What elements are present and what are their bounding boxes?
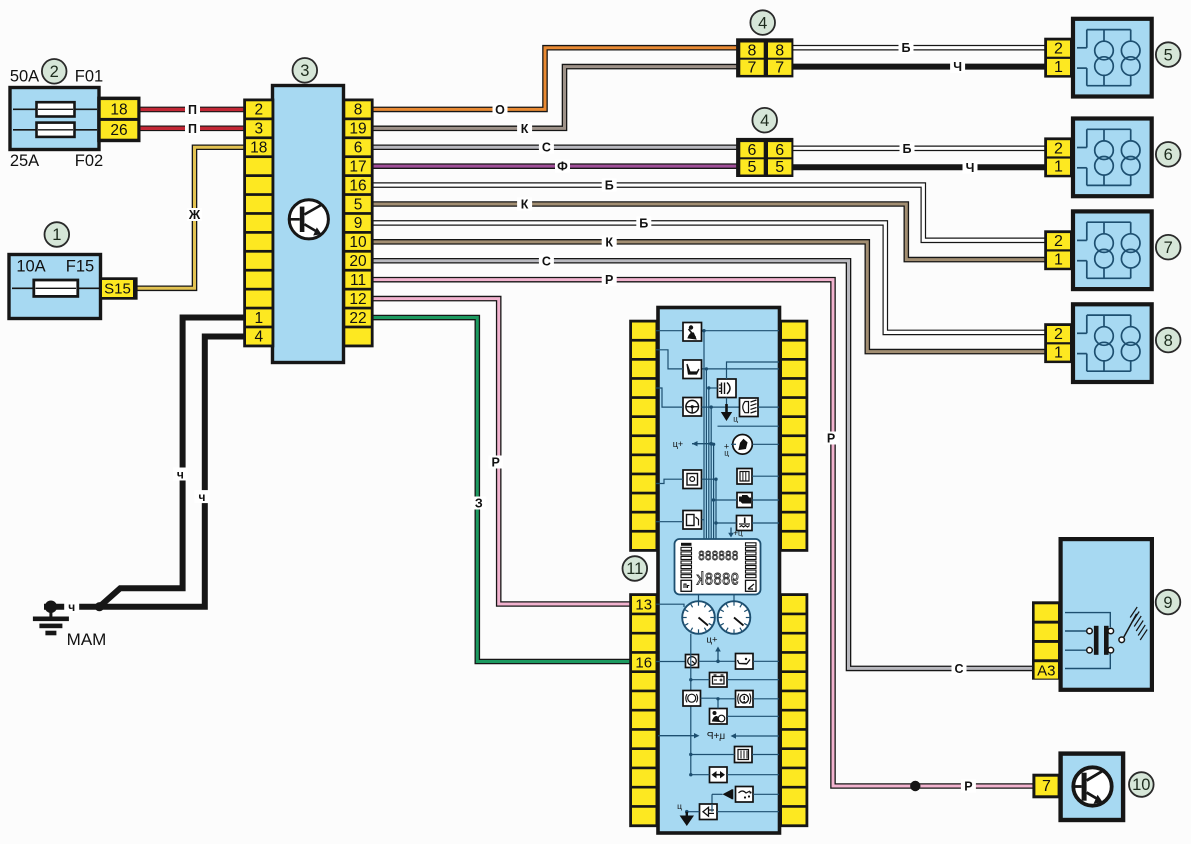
svg-text:ц: ц [733,415,738,424]
svg-text:С: С [954,662,963,676]
svg-text:ч: ч [68,600,75,614]
svg-text:9: 9 [1163,594,1172,612]
svg-text:Б: Б [605,179,614,193]
svg-text:ц: ц [677,801,682,811]
svg-text:888888: 888888 [698,548,738,565]
svg-text:4: 4 [760,112,769,130]
svg-text:10A: 10A [16,258,45,276]
svg-text:6: 6 [354,140,363,157]
svg-text:Р: Р [492,456,500,470]
svg-text:8: 8 [354,102,363,119]
svg-text:ц+: ц+ [673,439,683,449]
svg-text:6: 6 [775,142,784,159]
svg-text:З: З [475,497,483,511]
svg-text:7: 7 [1042,778,1051,795]
svg-text:17: 17 [349,158,366,175]
svg-text:18: 18 [250,140,267,157]
svg-text:2: 2 [1054,41,1063,58]
svg-text:О: О [495,103,505,117]
svg-text:4: 4 [758,14,767,32]
svg-text:7: 7 [748,60,757,77]
svg-text:К: К [521,198,529,212]
svg-text:1: 1 [52,226,61,244]
svg-text:25A: 25A [10,152,39,170]
svg-text:20: 20 [349,253,367,270]
svg-text:С: С [542,141,551,155]
svg-text:S15: S15 [104,280,131,297]
svg-text:1: 1 [1054,59,1063,76]
svg-text:1: 1 [1054,345,1063,362]
svg-text:МАМ: МАМ [67,630,107,649]
svg-text:26: 26 [110,122,127,139]
svg-text:A3: A3 [1037,663,1055,680]
svg-text:6: 6 [748,142,757,159]
svg-text:6: 6 [1164,146,1173,164]
svg-text:2: 2 [50,63,59,81]
svg-text:1: 1 [1054,252,1063,269]
svg-text:22: 22 [349,310,366,327]
svg-text:ч: ч [177,468,184,482]
svg-text:11: 11 [350,272,366,289]
svg-text:ц+: ц+ [707,635,718,646]
svg-text:Р: Р [605,273,613,287]
svg-text:С: С [542,254,551,268]
svg-text:1: 1 [254,310,263,327]
svg-text:5: 5 [748,159,757,176]
svg-text:5: 5 [1164,46,1173,64]
svg-text:11: 11 [626,560,643,578]
svg-text:8: 8 [775,42,784,59]
svg-text:13: 13 [635,597,652,614]
svg-text:К: К [521,122,529,136]
svg-text:Р: Р [827,432,835,446]
svg-text:5: 5 [354,196,363,213]
svg-text:ц+Р: ц+Р [707,731,726,742]
svg-text:Ф: Ф [557,160,568,174]
svg-text:19: 19 [349,121,366,138]
svg-text:2: 2 [1054,233,1063,250]
svg-text:F02: F02 [75,152,103,170]
svg-text:5: 5 [775,159,784,176]
svg-text:Б: Б [903,142,912,156]
svg-text:18: 18 [110,101,127,118]
svg-text:4: 4 [254,329,263,346]
svg-text:Б: Б [639,216,648,230]
svg-text:F01: F01 [75,68,103,86]
svg-text:Ч: Ч [953,60,962,74]
svg-text:7: 7 [1164,239,1173,257]
svg-text:8: 8 [748,42,757,59]
svg-text:3: 3 [254,121,263,138]
svg-text:9888k: 9888k [696,569,739,590]
svg-text:П: П [188,122,197,136]
svg-text:7: 7 [775,60,784,77]
svg-text:Б: Б [902,41,911,55]
svg-text:3: 3 [300,62,309,80]
svg-text:1: 1 [1054,159,1063,176]
svg-text:2: 2 [1054,140,1063,157]
svg-text:2: 2 [254,102,263,119]
svg-text:12: 12 [349,291,366,308]
svg-text:16: 16 [635,654,652,671]
svg-text:10: 10 [1132,776,1150,794]
svg-text:П: П [188,103,197,117]
svg-text:10: 10 [349,234,367,251]
svg-text:8: 8 [1164,332,1173,350]
svg-text:Ч: Ч [966,161,975,175]
svg-text:2: 2 [1054,326,1063,343]
svg-text:16: 16 [349,177,366,194]
svg-text:ц: ц [724,449,729,458]
svg-text:Р: Р [964,780,972,794]
svg-text:9: 9 [354,215,363,232]
svg-text:К: К [605,235,613,249]
svg-text:50A: 50A [10,68,39,86]
svg-text:+ц: +ц [733,529,743,538]
svg-text:ч: ч [199,490,206,504]
svg-text:Ж: Ж [188,208,201,222]
svg-text:F15: F15 [66,258,94,276]
